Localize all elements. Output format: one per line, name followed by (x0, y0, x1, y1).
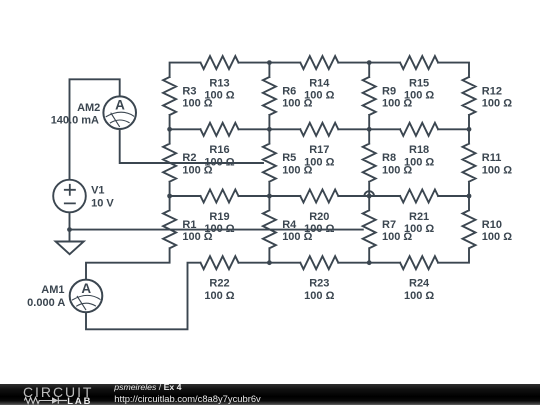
svg-text:R19: R19 (209, 211, 229, 223)
svg-text:R15: R15 (409, 78, 429, 90)
svg-text:R17: R17 (309, 144, 329, 156)
svg-text:100 Ω: 100 Ω (404, 290, 434, 302)
svg-text:A: A (115, 98, 125, 113)
svg-text:R9: R9 (382, 86, 396, 98)
svg-text:100 Ω: 100 Ω (204, 290, 234, 302)
svg-text:R20: R20 (309, 211, 329, 223)
svg-text:R4: R4 (282, 219, 297, 231)
svg-text:R14: R14 (309, 78, 330, 90)
svg-text:R22: R22 (209, 278, 229, 290)
svg-text:A: A (81, 281, 91, 296)
svg-text:100 Ω: 100 Ω (204, 156, 234, 168)
svg-text:R5: R5 (282, 152, 296, 164)
svg-text:R3: R3 (182, 86, 196, 98)
svg-text:R23: R23 (309, 278, 329, 290)
svg-text:100 Ω: 100 Ω (304, 156, 334, 168)
svg-text:R12: R12 (482, 86, 502, 98)
svg-text:R21: R21 (409, 211, 429, 223)
svg-text:R11: R11 (482, 152, 502, 164)
svg-text:R13: R13 (209, 78, 229, 90)
svg-text:R8: R8 (382, 152, 396, 164)
svg-text:AM1: AM1 (41, 284, 64, 296)
svg-text:140.0 mA: 140.0 mA (51, 115, 99, 127)
svg-text:R24: R24 (409, 278, 430, 290)
svg-text:100 Ω: 100 Ω (304, 90, 334, 102)
svg-text:V1: V1 (91, 185, 104, 197)
svg-text:R18: R18 (409, 144, 429, 156)
svg-text:100 Ω: 100 Ω (482, 164, 512, 176)
svg-text:AM2: AM2 (77, 102, 100, 114)
svg-text:100 Ω: 100 Ω (404, 90, 434, 102)
svg-text:R10: R10 (482, 219, 502, 231)
svg-text:100 Ω: 100 Ω (482, 231, 512, 243)
svg-text:R2: R2 (182, 152, 196, 164)
svg-text:R16: R16 (209, 144, 229, 156)
svg-text:R1: R1 (182, 219, 196, 231)
svg-text:100 Ω: 100 Ω (204, 223, 234, 235)
svg-text:0.000 A: 0.000 A (27, 297, 65, 309)
svg-text:100 Ω: 100 Ω (304, 223, 334, 235)
svg-text:10 V: 10 V (91, 197, 114, 209)
svg-text:R6: R6 (282, 86, 296, 98)
svg-text:100 Ω: 100 Ω (204, 90, 234, 102)
svg-text:100 Ω: 100 Ω (304, 290, 334, 302)
svg-text:100 Ω: 100 Ω (404, 223, 434, 235)
svg-text:R7: R7 (382, 219, 396, 231)
svg-text:100 Ω: 100 Ω (482, 98, 512, 110)
svg-text:100 Ω: 100 Ω (404, 156, 434, 168)
